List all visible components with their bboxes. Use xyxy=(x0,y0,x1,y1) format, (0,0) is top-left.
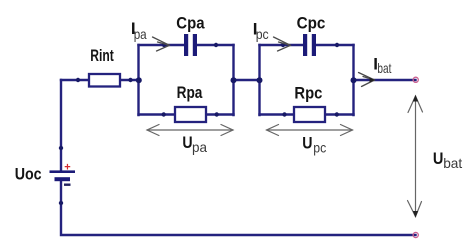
svg-text:pa: pa xyxy=(134,26,147,42)
svg-text:Cpc: Cpc xyxy=(297,13,326,32)
svg-text:U: U xyxy=(433,149,444,168)
svg-text:Rint: Rint xyxy=(90,46,114,65)
svg-text:bat: bat xyxy=(377,60,391,76)
svg-text:pc: pc xyxy=(313,139,326,155)
svg-text:bat: bat xyxy=(443,155,462,171)
svg-text:+: + xyxy=(64,161,70,173)
svg-text:U: U xyxy=(302,133,312,152)
svg-text:Rpa: Rpa xyxy=(177,83,203,102)
svg-text:pa: pa xyxy=(192,139,207,155)
svg-text:Cpa: Cpa xyxy=(176,13,205,32)
svg-text:pc: pc xyxy=(256,26,269,42)
svg-text:Rpc: Rpc xyxy=(294,83,322,102)
svg-text:Uoc: Uoc xyxy=(15,164,42,183)
